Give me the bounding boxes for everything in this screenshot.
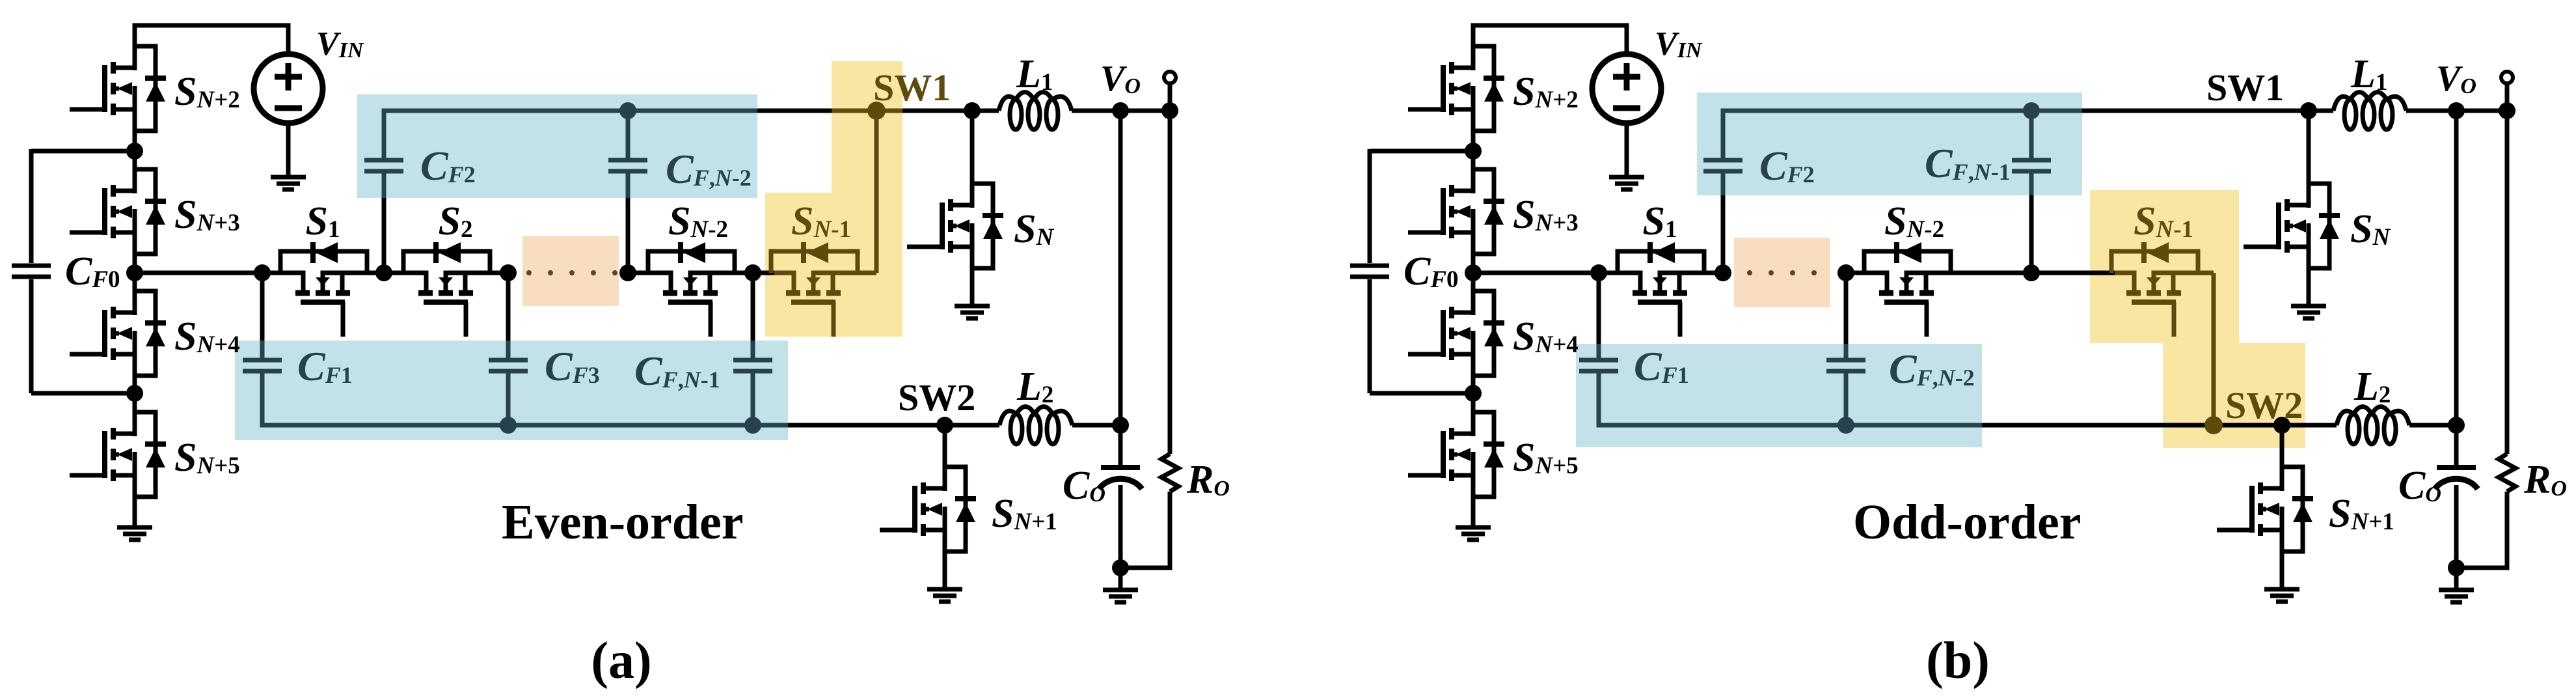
inductor L1 xyxy=(999,92,1072,130)
node SW1 xyxy=(867,102,886,120)
node CF3 drop xyxy=(500,264,517,281)
transistor SN+5 xyxy=(70,393,166,527)
svg-text:L1​: L1​ xyxy=(2350,52,2387,96)
ground below SN xyxy=(2291,306,2326,318)
inductor L2 xyxy=(999,407,1072,445)
wire CF0 branch lower xyxy=(29,279,34,393)
svg-text:(b): (b) xyxy=(1926,632,1990,690)
svg-text:SN​-2​: SN​-2​ xyxy=(668,199,728,244)
wire capacitor CF1 top xyxy=(1597,273,1601,358)
wire stack to node CF1 xyxy=(1473,271,1599,275)
highlight region: ellipsis (orange) xyxy=(1734,238,1830,307)
node CF,N-2 rise xyxy=(619,264,636,281)
node CF,N-1 top xyxy=(2023,102,2040,119)
resistor RO xyxy=(1161,454,1178,492)
wire L2 to output node xyxy=(1072,423,1120,428)
node CF,N-1 bottom xyxy=(744,417,761,434)
capacitor CO xyxy=(1099,468,1142,489)
node between SN+2 and SN+3 xyxy=(1465,143,1482,160)
transistor SN+4 xyxy=(1408,273,1504,393)
label SN+1 xyxy=(992,492,1057,536)
label SN-1 xyxy=(2134,199,2193,244)
wire SN-1 to SW1 xyxy=(874,111,879,273)
transistor SN xyxy=(907,111,1003,306)
transistor SN+3 xyxy=(1408,151,1504,273)
label SN+5 xyxy=(1513,436,1579,480)
wire VO column xyxy=(2454,111,2459,466)
svg-text:SN​: SN​ xyxy=(1014,207,1054,251)
wire to output terminal xyxy=(2505,83,2510,111)
capacitor CF0 xyxy=(12,266,51,277)
svg-text:SW2: SW2 xyxy=(898,376,975,419)
node CF3 bottom xyxy=(500,417,517,434)
node output ground xyxy=(1112,559,1129,576)
wire node to ground xyxy=(1119,568,1123,590)
svg-text:VO​: VO​ xyxy=(2436,59,2476,99)
node CF,N-2 drop xyxy=(1837,264,1854,281)
transistor S1 xyxy=(1599,242,1723,337)
wire SW2 rail xyxy=(788,423,999,428)
node SN drain xyxy=(964,102,981,119)
label CF2 xyxy=(420,143,476,189)
wire CO to ground node xyxy=(2454,485,2459,568)
label S1 xyxy=(1643,199,1677,244)
svg-text:SN​+3​: SN​+3​ xyxy=(1513,193,1579,237)
wire SN-1 to SW2 xyxy=(2212,273,2216,425)
wire CO to ground node xyxy=(1119,485,1123,568)
svg-text:S1​: S1​ xyxy=(306,199,340,244)
node CF,N-1 rise xyxy=(2023,264,2040,281)
ground at output xyxy=(2439,590,2474,602)
svg-text:SN​+2​: SN​+2​ xyxy=(1513,70,1579,114)
wire SW1 rail xyxy=(2082,109,2333,113)
ground below switch stack xyxy=(117,527,152,540)
label SN xyxy=(2350,207,2391,251)
wire from switch stack top to VIN xyxy=(1473,25,1627,68)
wire capacitor CF,N-1 bottom xyxy=(751,373,755,425)
svg-text:Odd-order: Odd-order xyxy=(1853,495,2081,550)
svg-text:CF​0​: CF​0​ xyxy=(65,249,120,294)
capacitor CF1 xyxy=(243,360,282,371)
capacitor CF2 xyxy=(364,160,403,171)
wire capacitor CF1 bottom to SW2 rail xyxy=(262,373,788,425)
svg-text:S1​: S1​ xyxy=(1643,199,1677,244)
wire capacitor CF2 bottom xyxy=(1721,173,1726,273)
label S1 xyxy=(306,199,340,244)
capacitor CF,N-1 xyxy=(733,360,772,371)
caption Even-order xyxy=(502,495,743,550)
ground below switch stack xyxy=(1456,527,1491,540)
label SN+1 xyxy=(2329,492,2394,536)
wire to output terminal xyxy=(1168,83,1173,111)
svg-text:VIN​: VIN​ xyxy=(1655,25,1703,63)
wire capacitor CF,N-2 top xyxy=(626,111,630,158)
capacitor CF2 xyxy=(1703,160,1742,171)
label CF,N-2 xyxy=(666,146,752,192)
label SN+4 xyxy=(174,314,240,359)
wire L1 to VO xyxy=(1072,109,1170,113)
wire L1 to VO xyxy=(2406,109,2507,113)
node CF1 drop xyxy=(254,264,271,281)
ground at output xyxy=(1103,590,1138,602)
node between SN+4 and SN+5 xyxy=(126,385,143,402)
wire from switch stack top to VIN xyxy=(135,25,288,68)
transistor SN+3 xyxy=(70,151,166,273)
node SW1 xyxy=(2300,102,2317,119)
wire capacitor CF2 bottom xyxy=(382,173,386,273)
label CF2 xyxy=(1759,143,1815,189)
label S2 xyxy=(439,199,473,244)
wire CF0 branch to node B xyxy=(31,391,135,396)
label SN-2 xyxy=(668,199,728,244)
caption (b) xyxy=(1926,632,1990,690)
label CO xyxy=(1063,464,1105,508)
transistor SN-2 xyxy=(1846,242,2031,337)
wire capacitor CF3 top xyxy=(506,273,511,358)
highlight region: SN-1 and SW2 path (yellow) xyxy=(2090,190,2305,448)
wire node to ground xyxy=(2454,568,2459,590)
wire RO column bottom xyxy=(1120,492,1170,568)
capacitor CF3 xyxy=(489,360,528,371)
label VIN xyxy=(316,25,364,63)
node VO xyxy=(2448,102,2465,119)
label SN+5 xyxy=(174,436,240,480)
wire CF0 branch lower xyxy=(1368,279,1372,393)
wire RO column bottom xyxy=(2456,492,2507,568)
wire CF0 branch to node B xyxy=(1370,391,1473,396)
svg-text:RO​: RO​ xyxy=(1186,458,1230,502)
transistor SN+2 xyxy=(70,46,166,151)
node CF,N-2 top xyxy=(619,102,636,119)
label L1 xyxy=(2350,52,2387,96)
node L2 output xyxy=(2448,417,2465,434)
label CF,N-2 xyxy=(1889,346,1975,392)
svg-text:SN​+3​: SN​+3​ xyxy=(174,193,240,237)
svg-text:SW1: SW1 xyxy=(873,66,951,109)
node CF2 rise xyxy=(1715,264,1731,281)
svg-text:SN​+1​: SN​+1​ xyxy=(2329,492,2394,536)
highlight region: upper flying capacitors (blue) xyxy=(1697,92,2082,195)
node VO xyxy=(1112,102,1129,119)
svg-text:SN​+5​: SN​+5​ xyxy=(1513,436,1579,480)
svg-text:SN​+5​: SN​+5​ xyxy=(174,436,240,480)
label VO xyxy=(2436,59,2476,99)
voltage source VIN xyxy=(1592,54,1661,123)
node SN+1 drain xyxy=(2273,417,2290,434)
wire VIN to ground xyxy=(1625,123,1629,177)
wire RO column top xyxy=(1168,111,1173,454)
output terminal xyxy=(2501,72,2513,83)
svg-text:L2​: L2​ xyxy=(1016,365,1053,409)
inductor L1 xyxy=(2333,92,2406,130)
caption (a) xyxy=(591,632,651,690)
node L2 output xyxy=(1112,417,1129,434)
caption Odd-order xyxy=(1853,495,2081,550)
highlight region: upper flying capacitors (blue) xyxy=(357,94,757,198)
svg-text:Even-order: Even-order xyxy=(502,495,743,550)
ellipsis dots xyxy=(1747,270,1817,275)
label SW1 xyxy=(873,66,951,109)
node SW2 xyxy=(936,417,953,434)
wire L2 to output node xyxy=(2409,423,2456,428)
capacitor CF,N-1 xyxy=(2012,160,2051,171)
transistor SN-2 xyxy=(628,242,753,337)
wire node A to CF0 branch xyxy=(1370,149,1473,154)
svg-text:SN​+1​: SN​+1​ xyxy=(992,492,1057,536)
transistor SN-1 xyxy=(771,242,876,337)
wire capacitor CF,N-1 top xyxy=(2029,111,2034,158)
highlight region: lower flying capacitors (blue) xyxy=(1576,344,1982,447)
ground below SN+1 xyxy=(927,589,962,602)
highlight region: lower flying capacitors (blue) xyxy=(235,341,788,440)
label VIN xyxy=(1655,25,1703,63)
svg-text:CO​: CO​ xyxy=(2398,464,2441,508)
inductor L2 xyxy=(2337,407,2409,445)
wire capacitor CF,N-2 bottom xyxy=(1844,373,1849,425)
svg-text:L1​: L1​ xyxy=(1016,52,1053,96)
label SW1 xyxy=(2206,66,2284,109)
svg-text:SN​-2​: SN​-2​ xyxy=(1884,199,1944,244)
label SN-1 xyxy=(791,199,851,244)
node CF,N-1 drop xyxy=(744,264,761,281)
label SN-2 xyxy=(1884,199,1944,244)
ground below SN xyxy=(955,306,990,318)
capacitor CO xyxy=(2435,468,2478,489)
label L2 xyxy=(2353,365,2391,409)
transistor S2 xyxy=(384,242,508,337)
wire stack to node CF1 xyxy=(135,271,262,275)
label CF1 xyxy=(1634,343,1689,389)
node at rail / CF0 junction xyxy=(1465,264,1482,281)
label CF1 xyxy=(297,343,353,389)
label SW2 xyxy=(898,376,975,419)
svg-text:SN​+4​: SN​+4​ xyxy=(174,314,240,359)
wire capacitor CF,N-2 bottom xyxy=(626,173,630,273)
resistor RO xyxy=(2499,454,2515,492)
transistor SN xyxy=(2244,111,2340,306)
wire capacitor CF,N-1 bottom xyxy=(2029,173,2034,273)
capacitor CF1 xyxy=(1579,360,1618,371)
wire CF0 branch upper xyxy=(29,149,34,263)
transistor S1 xyxy=(262,242,384,337)
label SN+3 xyxy=(174,193,240,237)
svg-text:S2​: S2​ xyxy=(439,199,473,244)
highlight region: SN-1 and SW1 path (yellow) xyxy=(765,61,902,337)
svg-text:CF​0​: CF​0​ xyxy=(1403,249,1459,294)
ground below VIN xyxy=(1609,177,1644,189)
label VO xyxy=(1100,59,1141,99)
svg-text:CO​: CO​ xyxy=(1063,464,1105,508)
transistor SN+5 xyxy=(1408,393,1504,527)
svg-text:(a): (a) xyxy=(591,632,651,690)
label CF,N-1 xyxy=(1925,140,2011,186)
wire VIN to ground xyxy=(286,123,291,177)
node CF2 rise xyxy=(375,264,392,281)
wire capacitor CF1 bottom to SW2 rail xyxy=(1599,373,1982,425)
node at rail / CF0 junction xyxy=(126,264,143,281)
ground below VIN xyxy=(271,177,306,189)
output terminal xyxy=(1164,72,1176,83)
node output terminal junction xyxy=(1161,102,1178,119)
node CF,N-2 bottom xyxy=(1837,417,1854,434)
svg-text:VIN​: VIN​ xyxy=(316,25,364,63)
label CO xyxy=(2398,464,2441,508)
label RO xyxy=(2523,458,2567,502)
node between SN+4 and SN+5 xyxy=(1465,385,1482,402)
label SN+3 xyxy=(1513,193,1579,237)
label CF3 xyxy=(545,343,600,389)
wire node to SN-1 xyxy=(753,271,774,275)
label RO xyxy=(1186,458,1230,502)
wire SW1 rail xyxy=(757,109,999,113)
capacitor CF,N-2 xyxy=(1826,360,1865,371)
wire capacitor CF2 top xyxy=(1723,111,2082,158)
svg-text:SN​+2​: SN​+2​ xyxy=(174,70,240,114)
label CF0 xyxy=(1403,249,1459,294)
wire capacitor CF,N-1 top xyxy=(751,273,755,358)
wire RO column top xyxy=(2505,111,2510,454)
label SN+4 xyxy=(1513,314,1579,359)
wire capacitor CF,N-2 top xyxy=(1844,273,1849,358)
wire capacitor CF1 top xyxy=(260,273,265,358)
label L2 xyxy=(1016,365,1053,409)
node output terminal junction xyxy=(2499,102,2515,119)
svg-text:L2​: L2​ xyxy=(2353,365,2391,409)
wire CF0 branch upper xyxy=(1368,149,1372,263)
label CF0 xyxy=(65,249,120,294)
wire capacitor CF2 top xyxy=(384,111,757,158)
node output ground xyxy=(2448,559,2465,576)
node SW2 olive xyxy=(2204,416,2223,434)
transistor SN+1 xyxy=(2217,425,2313,589)
label SW2 xyxy=(2225,384,2303,426)
svg-text:RO​: RO​ xyxy=(2523,458,2567,502)
transistor SN+2 xyxy=(1408,46,1504,151)
label L1 xyxy=(1016,52,1053,96)
voltage source VIN xyxy=(254,54,323,123)
svg-text:SN​+4​: SN​+4​ xyxy=(1513,314,1579,359)
transistor SN-1 xyxy=(2111,242,2214,337)
svg-text:SW1: SW1 xyxy=(2206,66,2284,109)
transistor SN+1 xyxy=(880,425,976,589)
ellipsis dots xyxy=(526,270,617,275)
wire capacitor CF3 bottom xyxy=(506,373,511,425)
wire node to SN-1 xyxy=(2031,271,2115,275)
node CF1 drop xyxy=(1590,264,1607,281)
label SN+2 xyxy=(1513,70,1579,114)
wire node A to CF0 branch xyxy=(31,149,135,154)
wire SW2 rail xyxy=(1982,423,2337,428)
node between SN+2 and SN+3 xyxy=(126,143,143,160)
transistor SN+4 xyxy=(70,273,166,393)
highlight region: ellipsis (orange) xyxy=(522,236,619,306)
ground below SN+1 xyxy=(2264,589,2299,602)
label CF,N-1 xyxy=(634,348,720,394)
capacitor CF,N-2 xyxy=(608,160,647,171)
svg-text:VO​: VO​ xyxy=(1100,59,1141,99)
label SN xyxy=(1014,207,1054,251)
svg-text:SN​: SN​ xyxy=(2350,207,2391,251)
capacitor CF0 xyxy=(1350,266,1389,277)
svg-text:SW2: SW2 xyxy=(2225,384,2303,426)
label SN+2 xyxy=(174,70,240,114)
wire VO column xyxy=(1119,111,1123,466)
